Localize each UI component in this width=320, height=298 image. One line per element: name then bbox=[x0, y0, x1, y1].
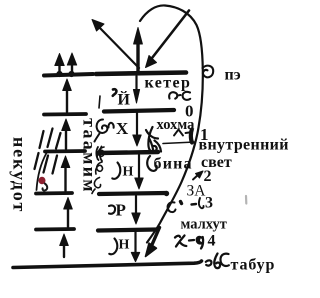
wire bar L3 bbox=[45, 149, 85, 153]
svg-text:3: 3 bbox=[205, 195, 213, 212]
arrow bina to bar4 bbox=[138, 155, 140, 179]
svg-text:пэ: пэ bbox=[225, 67, 241, 84]
wire arrow bottom to L5 bbox=[63, 244, 65, 257]
bottom tabur line bbox=[13, 261, 202, 268]
curve end arrow to tabur bbox=[151, 228, 160, 248]
arrow up from keter bar bbox=[136, 42, 139, 71]
bar 4 (Р bar) bbox=[99, 193, 166, 194]
svg-text:Х: Х bbox=[116, 119, 129, 138]
wire bar L5 bbox=[36, 227, 74, 231]
svg-text:малхут: малхут bbox=[181, 217, 227, 233]
wire bar L2 bbox=[44, 112, 86, 116]
handwritten dot dash l 3 bbox=[181, 202, 182, 204]
bar бина (bina bar) bbox=[98, 152, 158, 153]
handwritten glyphs + Х (hohma letter) bbox=[95, 120, 114, 142]
scribble flourish at right end of bina bar bbox=[146, 127, 161, 171]
wire arrow up A1a on bar L1 bbox=[58, 61, 60, 74]
wire arrow L5 to L4 bbox=[67, 207, 69, 227]
red question mark bbox=[39, 177, 46, 185]
big ellipse curve (surrounding light) bbox=[140, 5, 203, 242]
svg-text:внутренний: внутренний bbox=[199, 137, 289, 154]
arrow diagonal up-left from keter bar bbox=[97, 25, 139, 68]
svg-text:Й: Й bbox=[118, 90, 131, 109]
handwritten lamed-alef row + underline under hohma row bbox=[174, 130, 189, 136]
svg-text:табур: табур bbox=[231, 257, 276, 274]
handwritten glyphs + 4 bbox=[175, 236, 203, 249]
svg-text:хохма: хохма bbox=[157, 117, 196, 133]
handwritten Ͻ + Р bbox=[109, 205, 115, 213]
svg-text:Н: Н bbox=[123, 165, 134, 180]
bar 5 (malchut bar) bbox=[98, 230, 157, 231]
svg-text:4: 4 bbox=[208, 233, 216, 250]
wire bar L4 bbox=[36, 191, 72, 195]
wire arrow L2 to L1 bbox=[66, 88, 68, 112]
ЗА loop on curve bbox=[168, 202, 176, 212]
label 'Й (yod) bbox=[113, 89, 117, 96]
wire bar L1 (left column top bar) bbox=[44, 74, 93, 76]
arrow hohma to bina bbox=[136, 113, 138, 134]
paren curve stroke left of L4 bbox=[37, 153, 47, 190]
handwritten squiggle column (hebrew script right of таамим) bbox=[92, 96, 104, 194]
handwritten glyphs before табур bbox=[206, 254, 229, 269]
arrow bar5 down to bottom line bbox=[134, 232, 136, 252]
bar хохма (hohma bar) bbox=[104, 110, 174, 112]
пэ loop on curve bbox=[203, 66, 214, 78]
handwritten b-l beside keter bbox=[169, 92, 190, 100]
bar кетер (keter bar) bbox=[96, 73, 186, 75]
wire arrow up A1b on bar L1 bbox=[71, 60, 73, 74]
arrow incoming diagonal from upper right to keter bar bbox=[152, 11, 189, 59]
faint gray smudge bbox=[245, 196, 248, 204]
wire arrow L3 to L2 bbox=[65, 128, 67, 149]
hash slashes above bar L3 bbox=[40, 131, 44, 148]
svg-text:Р: Р bbox=[116, 201, 126, 220]
svg-text:некудот: некудот bbox=[10, 137, 30, 213]
svg-text:Н: Н bbox=[119, 238, 130, 253]
small up-right arrow before 2 bbox=[193, 174, 199, 180]
handwritten ) + Н (bar5 letter) bbox=[109, 239, 117, 255]
arrow keter to hohma bbox=[135, 76, 137, 89]
hash slashes below bar L3 bbox=[35, 153, 39, 169]
svg-text:ЗА: ЗА bbox=[187, 183, 207, 200]
arrow bar4 to bar5 bbox=[135, 196, 137, 213]
svg-text:бина: бина bbox=[154, 156, 193, 173]
svg-text:кетер: кетер bbox=[145, 75, 192, 92]
wire arrow L4 to L3 bbox=[64, 166, 66, 191]
handwritten ) + Н (bina letter) bbox=[112, 163, 120, 179]
scribble knot at left end of bina bar bbox=[96, 147, 102, 162]
